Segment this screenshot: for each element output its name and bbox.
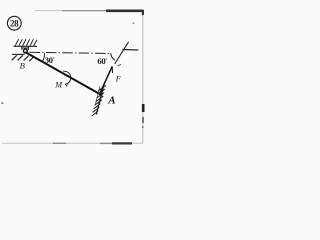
top border line of figure cell: [35, 10, 62, 12]
speck top right: [133, 22, 135, 24]
stray speck left edge: [1, 102, 3, 104]
30 degree angle arc at B: [42, 53, 45, 63]
ceiling line at B: [14, 45, 38, 47]
svg-text:M: M: [54, 80, 63, 89]
speck right border low: [142, 126, 144, 128]
pin B: [24, 49, 28, 53]
lower-left ledge line under B: [12, 53, 25, 55]
hinge bracket at B: [22, 47, 29, 50]
ceiling hatching above B: [15, 39, 37, 46]
F arrowhead: [109, 66, 112, 73]
svg-text:F: F: [115, 75, 122, 84]
dash-dot axis line from B to the right: [30, 52, 111, 53]
rod (beam) B to A: [26, 53, 102, 96]
F line of action upper segment: [115, 42, 129, 64]
svg-text:A: A: [107, 95, 115, 107]
lower-left ledge hatching: [12, 55, 34, 61]
variant number circle 28: [7, 16, 21, 30]
bottom border line of figure cell: [2, 142, 143, 144]
right border line of figure cell: [142, 10, 144, 144]
60 degree angle arc: [111, 53, 115, 60]
faint doubled wall stroke: [96, 86, 101, 104]
svg-text:B: B: [20, 61, 26, 71]
moment arrowhead: [65, 84, 68, 87]
force F vector from A: [99, 66, 112, 94]
ledge line top right: [122, 49, 138, 52]
label F with overbar: [118, 65, 121, 66]
wall edge at A: [96, 83, 104, 114]
wall hatching at A: [92, 85, 106, 116]
svg-text:28: 28: [10, 19, 19, 29]
moment M arc arrow on the rod: [63, 71, 70, 84]
